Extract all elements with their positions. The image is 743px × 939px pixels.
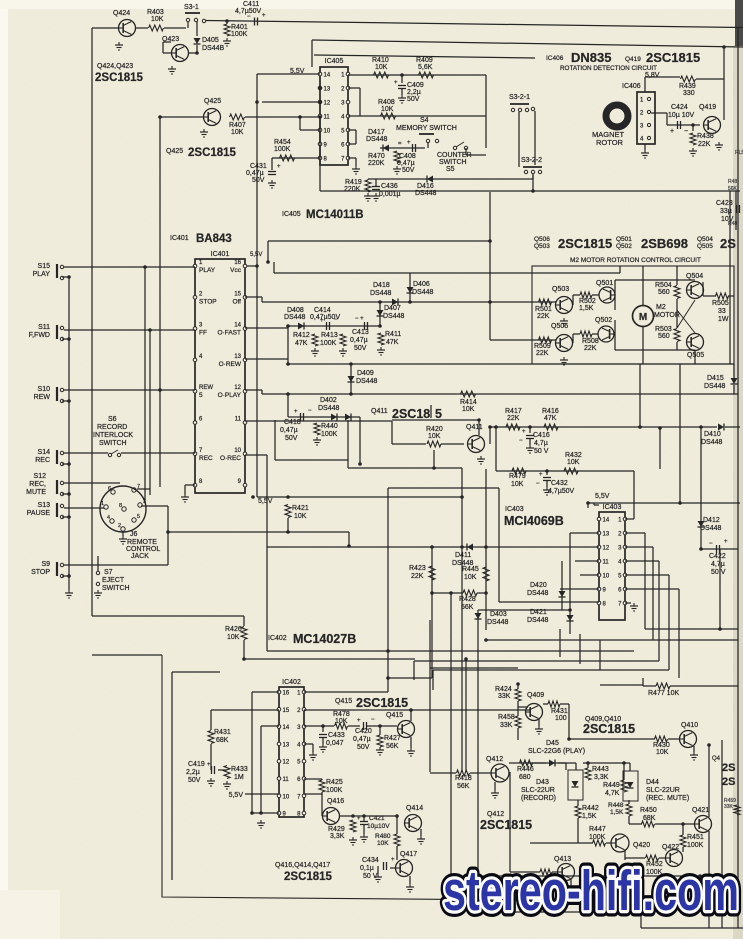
svg-text:56K: 56K (461, 604, 474, 611)
svg-text:0,047: 0,047 (326, 740, 344, 747)
svg-text:R417: R417 (505, 408, 522, 415)
svg-text:R419: R419 (345, 179, 362, 186)
svg-text:S9: S9 (41, 561, 50, 568)
svg-text:1,5K: 1,5K (610, 809, 624, 816)
svg-text:D418: D418 (373, 282, 390, 289)
svg-text:DS448: DS448 (284, 314, 306, 321)
svg-text:IC402: IC402 (268, 635, 287, 642)
svg-text:13: 13 (324, 87, 331, 93)
svg-text:22K: 22K (698, 141, 711, 148)
svg-text:R440: R440 (321, 423, 338, 430)
svg-text:D44: D44 (646, 779, 659, 786)
svg-text:R508: R508 (582, 338, 599, 345)
svg-text:M: M (639, 312, 647, 323)
svg-text:10: 10 (234, 448, 241, 454)
svg-text:33K: 33K (724, 804, 734, 810)
svg-text:R403: R403 (147, 9, 164, 16)
svg-text:DS448: DS448 (704, 383, 726, 390)
svg-text:50V: 50V (402, 167, 415, 174)
svg-text:S5: S5 (446, 166, 455, 173)
svg-text:Q425: Q425 (204, 98, 221, 105)
svg-text:JACK: JACK (131, 553, 149, 560)
svg-text:REC: REC (199, 455, 213, 462)
svg-text:Q419: Q419 (699, 104, 716, 111)
svg-text:0,1µ: 0,1µ (360, 865, 374, 872)
svg-text:R480: R480 (375, 833, 391, 840)
svg-text:R48: R48 (728, 179, 737, 185)
svg-text:Q502: Q502 (595, 317, 612, 324)
svg-text:50V: 50V (354, 345, 367, 352)
svg-text:Q504: Q504 (686, 273, 703, 280)
svg-text:−: − (536, 481, 540, 487)
svg-text:2SC1815: 2SC1815 (583, 722, 635, 736)
svg-text:R429: R429 (328, 826, 345, 833)
svg-text:R412: R412 (293, 332, 310, 339)
svg-text:Vcc: Vcc (230, 267, 242, 274)
svg-text:220K: 220K (344, 186, 361, 193)
svg-text:11: 11 (235, 417, 242, 423)
svg-text:R410: R410 (372, 57, 389, 64)
svg-text:C433: C433 (328, 732, 345, 739)
svg-text:R447: R447 (589, 826, 606, 833)
svg-text:IC406: IC406 (622, 83, 641, 90)
svg-text:− +: − + (355, 316, 364, 322)
svg-text:SWITCH: SWITCH (439, 159, 467, 166)
svg-text:10: 10 (283, 794, 290, 800)
svg-text:11: 11 (603, 560, 610, 566)
svg-text:5,5V: 5,5V (229, 792, 244, 799)
svg-text:−: − (519, 438, 523, 444)
svg-text:C424: C424 (671, 104, 688, 111)
svg-text:S13: S13 (38, 502, 51, 509)
svg-text:DS448: DS448 (370, 290, 392, 297)
svg-text:S10: S10 (38, 386, 51, 393)
svg-text:13: 13 (283, 742, 290, 748)
svg-text:−: − (334, 317, 338, 323)
svg-text:5,5V: 5,5V (595, 493, 610, 500)
svg-text:C414: C414 (314, 307, 331, 314)
svg-text:C436: C436 (381, 183, 398, 190)
svg-text:100K: 100K (326, 787, 343, 794)
svg-text:10K: 10K (294, 513, 307, 520)
svg-text:R432: R432 (565, 452, 582, 459)
svg-text:1,5K: 1,5K (582, 813, 597, 820)
svg-text:DS448: DS448 (487, 619, 509, 626)
svg-text:PLAY: PLAY (199, 267, 216, 274)
svg-text:O·REC: O·REC (220, 455, 241, 462)
svg-text:R431: R431 (551, 708, 568, 715)
svg-text:=: = (398, 141, 402, 147)
svg-text:S3-2-1: S3-2-1 (509, 94, 530, 101)
svg-text:C418: C418 (284, 419, 301, 426)
svg-text:S4: S4 (420, 117, 429, 124)
svg-text:5,5V: 5,5V (258, 498, 273, 505)
svg-text:R431: R431 (214, 729, 231, 736)
svg-text:56K: 56K (457, 783, 470, 790)
svg-text:15: 15 (283, 708, 290, 714)
svg-text:−: − (247, 14, 251, 20)
svg-text:4,7K: 4,7K (605, 790, 620, 797)
svg-text:DS448: DS448 (527, 590, 549, 597)
svg-text:12: 12 (283, 760, 290, 766)
svg-text:Q504: Q504 (697, 236, 713, 243)
svg-text:10K: 10K (227, 634, 240, 641)
svg-text:+: + (277, 164, 281, 170)
svg-text:3: 3 (143, 499, 146, 505)
svg-text:REC: REC (35, 457, 50, 464)
svg-text:10K: 10K (335, 718, 348, 725)
svg-text:RECORD: RECORD (97, 424, 127, 431)
svg-text:100K: 100K (687, 842, 704, 849)
svg-text:16: 16 (283, 691, 290, 697)
svg-text:R451: R451 (687, 834, 704, 841)
svg-text:DS448: DS448 (412, 289, 434, 296)
svg-text:0,47µ: 0,47µ (280, 427, 298, 434)
svg-text:10µ 10V: 10µ 10V (668, 112, 695, 119)
svg-text:Q506: Q506 (534, 236, 550, 243)
svg-text:IC403: IC403 (505, 506, 524, 513)
svg-text:M2 MOTOR ROTATION CONTROL: M2 MOTOR ROTATION CONTROL CIRCUIT (570, 257, 701, 264)
svg-text:R427: R427 (384, 735, 401, 742)
svg-text:+: + (522, 429, 526, 435)
svg-text:SLC-22G6 (PLAY): SLC-22G6 (PLAY) (528, 748, 585, 755)
svg-text:D407: D407 (384, 305, 401, 312)
svg-text:EJECT: EJECT (102, 577, 125, 584)
svg-text:R423: R423 (409, 565, 426, 572)
svg-text:+: + (394, 80, 398, 86)
svg-text:R425: R425 (326, 779, 343, 786)
svg-text:14: 14 (283, 725, 290, 731)
svg-text:CONTROL: CONTROL (126, 546, 160, 553)
svg-text:Q503: Q503 (534, 243, 550, 250)
svg-text:SWITCH: SWITCH (102, 585, 130, 592)
svg-text:50V: 50V (252, 177, 265, 184)
svg-text:D411: D411 (455, 552, 471, 559)
svg-text:12: 12 (234, 385, 241, 391)
svg-text:O·PLAY: O·PLAY (218, 392, 242, 399)
svg-text:R479: R479 (509, 473, 526, 480)
svg-text:DS448: DS448 (700, 525, 722, 532)
svg-text:100: 100 (555, 715, 567, 722)
svg-text:C420: C420 (355, 728, 372, 735)
svg-text:Q412: Q412 (487, 811, 504, 818)
svg-text:Q503: Q503 (552, 286, 569, 293)
svg-text:S3-1: S3-1 (184, 4, 199, 11)
svg-text:0,47µ: 0,47µ (353, 736, 371, 743)
svg-text:(REC. MUTE): (REC. MUTE) (646, 795, 689, 802)
svg-text:22K: 22K (584, 345, 597, 352)
svg-text:D43: D43 (536, 779, 549, 786)
svg-text:+: + (391, 857, 395, 863)
svg-text:INTERLOCK: INTERLOCK (93, 432, 133, 439)
svg-text:IC401: IC401 (170, 235, 189, 242)
svg-text:D421: D421 (530, 609, 547, 616)
svg-text:+: + (262, 13, 266, 19)
svg-text:5: 5 (199, 392, 203, 399)
svg-text:2: 2 (118, 523, 121, 529)
svg-text:R416: R416 (542, 408, 559, 415)
svg-text:R478: R478 (333, 711, 350, 718)
svg-text:R443: R443 (592, 766, 609, 773)
svg-text:R407: R407 (229, 122, 246, 129)
svg-text:R445: R445 (462, 566, 479, 573)
svg-text:MC14011B: MC14011B (306, 209, 364, 221)
svg-text:10µ10V: 10µ10V (367, 823, 390, 830)
svg-text:MCI4069B: MCI4069B (504, 514, 564, 528)
svg-text:IC403: IC403 (603, 504, 622, 511)
svg-text:6: 6 (108, 486, 111, 492)
svg-text:68K: 68K (643, 815, 656, 822)
svg-text:IC402: IC402 (282, 679, 301, 686)
svg-text:50V: 50V (407, 96, 420, 103)
svg-text:10V: 10V (721, 216, 734, 223)
svg-text:+: + (407, 140, 411, 146)
svg-text:R433: R433 (231, 766, 248, 773)
svg-text:22K: 22K (536, 350, 549, 357)
svg-text:5,5V: 5,5V (250, 252, 262, 258)
svg-text:Q420: Q420 (633, 842, 650, 849)
svg-text:D412: D412 (703, 517, 720, 524)
svg-text:R401: R401 (231, 24, 248, 31)
svg-text:10K: 10K (231, 129, 244, 136)
svg-text:10K: 10K (464, 574, 477, 581)
svg-text:33K: 33K (500, 722, 513, 729)
svg-text:R454: R454 (274, 139, 291, 146)
svg-text:Q501: Q501 (616, 236, 632, 243)
svg-text:Q409: Q409 (527, 692, 544, 699)
svg-text:SLC-22UR: SLC-22UR (521, 787, 555, 794)
svg-text:IC401: IC401 (211, 251, 230, 258)
svg-text:R418: R418 (455, 775, 472, 782)
svg-text:50 V: 50 V (711, 569, 726, 576)
svg-text:2S: 2S (722, 762, 735, 774)
svg-text:13: 13 (234, 354, 241, 360)
svg-text:REW: REW (199, 385, 213, 391)
svg-text:2SC1815: 2SC1815 (284, 871, 333, 883)
svg-text:2SC1815: 2SC1815 (188, 147, 237, 159)
svg-text:10K: 10K (656, 749, 669, 756)
svg-text:REC,: REC, (29, 481, 46, 488)
svg-text:S14: S14 (38, 449, 51, 456)
svg-text:D416: D416 (417, 183, 434, 190)
svg-text:MUTE: MUTE (26, 489, 46, 496)
svg-text:R424: R424 (495, 686, 512, 693)
svg-text:1W: 1W (718, 316, 729, 323)
svg-text:DS448: DS448 (356, 378, 378, 385)
svg-text:2S: 2S (722, 776, 735, 788)
svg-text:13: 13 (603, 532, 610, 538)
svg-text:C434: C434 (362, 857, 379, 864)
svg-text:PLAY: PLAY (33, 271, 51, 278)
svg-text:D408: D408 (287, 307, 304, 314)
svg-text:PAUSE: PAUSE (27, 510, 51, 517)
svg-text:Q502: Q502 (616, 243, 632, 250)
svg-text:10K: 10K (151, 16, 164, 23)
svg-text:10K: 10K (462, 406, 475, 413)
svg-text:−: − (709, 541, 713, 547)
svg-text:ROTATION DETECTION CIRCUIT: ROTATION DETECTION CIRCUIT (560, 65, 657, 72)
svg-text:10K: 10K (428, 433, 441, 440)
svg-text:11: 11 (283, 777, 290, 783)
svg-text:4: 4 (107, 515, 110, 521)
svg-text:R430: R430 (653, 742, 670, 749)
svg-text:F,FWD: F,FWD (29, 332, 50, 339)
svg-text:16: 16 (234, 260, 241, 266)
svg-text:R421: R421 (292, 505, 309, 512)
svg-text:REW: REW (34, 394, 51, 401)
svg-text:Q4: Q4 (712, 756, 721, 762)
svg-text:R438: R438 (697, 133, 714, 140)
svg-text:C413: C413 (352, 329, 369, 336)
svg-text:R420: R420 (426, 426, 443, 433)
svg-text:4,7µ: 4,7µ (711, 561, 725, 568)
svg-text:+: + (320, 318, 324, 324)
svg-text:Q501: Q501 (596, 280, 613, 287)
svg-text:R449: R449 (603, 782, 620, 789)
svg-text:C419: C419 (188, 761, 205, 768)
svg-text:R503: R503 (655, 326, 672, 333)
svg-text:1: 1 (101, 501, 104, 507)
svg-text:4,7µ50V: 4,7µ50V (548, 488, 575, 495)
svg-text:S15: S15 (38, 263, 51, 270)
svg-text:Q411: Q411 (466, 424, 483, 431)
svg-text:22K: 22K (411, 573, 424, 580)
svg-text:2SC1815: 2SC1815 (356, 696, 408, 710)
svg-text:Q415: Q415 (335, 698, 352, 705)
svg-text:ROTOR: ROTOR (596, 138, 624, 147)
svg-text:(RECORD): (RECORD) (521, 795, 556, 802)
svg-text:22K: 22K (507, 415, 520, 422)
svg-text:−: − (684, 128, 688, 135)
svg-text:2SC18: 2SC18 (392, 407, 430, 421)
svg-text:Q424: Q424 (113, 10, 130, 17)
svg-text:SLC-22UR: SLC-22UR (646, 787, 680, 794)
svg-text:O·FAST: O·FAST (218, 330, 242, 337)
svg-text:REMOTE: REMOTE (127, 539, 157, 546)
svg-text:DS448: DS448 (527, 617, 549, 624)
svg-text:R428: R428 (459, 596, 476, 603)
svg-text:12: 12 (324, 101, 331, 107)
svg-text:Q412: Q412 (486, 756, 503, 763)
svg-text:50V: 50V (357, 744, 370, 751)
svg-text:DS448: DS448 (318, 405, 340, 412)
svg-text:Q416: Q416 (327, 798, 344, 805)
svg-text:2,2µ: 2,2µ (186, 769, 200, 776)
svg-text:2SC1815: 2SC1815 (646, 50, 700, 65)
svg-text:R439: R439 (679, 83, 696, 90)
svg-text:2SC1815: 2SC1815 (95, 72, 144, 84)
svg-text:33: 33 (718, 308, 726, 315)
svg-text:5,8V: 5,8V (645, 72, 660, 79)
svg-text:IC406: IC406 (546, 55, 564, 62)
svg-text:5,6K: 5,6K (418, 64, 433, 71)
svg-text:S12: S12 (34, 473, 47, 480)
svg-text:R448: R448 (608, 802, 624, 809)
svg-text:S6: S6 (108, 416, 117, 423)
svg-text:14: 14 (324, 73, 331, 79)
svg-text:SWITCH: SWITCH (99, 440, 127, 447)
svg-text:2SC1815: 2SC1815 (558, 236, 612, 251)
svg-text:Q505: Q505 (697, 243, 713, 250)
svg-text:R501: R501 (535, 306, 552, 313)
svg-text:47K: 47K (544, 415, 557, 422)
svg-text:+: + (357, 816, 361, 822)
svg-text:R408: R408 (378, 99, 395, 106)
svg-text:R477 10K: R477 10K (648, 690, 679, 697)
svg-text:0,47µ: 0,47µ (350, 337, 368, 344)
svg-text:Q411: Q411 (371, 408, 388, 415)
svg-text:0,47µ: 0,47µ (246, 170, 264, 177)
svg-text:RL5: RL5 (735, 150, 743, 156)
svg-text:Q416,Q414,Q417: Q416,Q414,Q417 (275, 862, 330, 869)
svg-text:D403: D403 (490, 611, 507, 618)
svg-text:100K: 100K (320, 340, 337, 347)
svg-text:R502: R502 (579, 298, 596, 305)
svg-text:S11: S11 (38, 324, 50, 331)
svg-text:C411: C411 (243, 1, 259, 8)
svg-text:C409: C409 (407, 82, 424, 89)
svg-text:220K: 220K (368, 160, 385, 167)
svg-text:R458: R458 (498, 714, 515, 721)
svg-text:R442: R442 (582, 805, 599, 812)
svg-text:DN835: DN835 (571, 50, 611, 65)
svg-text:Q415: Q415 (386, 712, 403, 719)
svg-text:0,001µ: 0,001µ (379, 191, 401, 198)
svg-text:8: 8 (119, 503, 122, 509)
svg-text:R450: R450 (640, 807, 657, 814)
svg-text:100K: 100K (231, 31, 248, 38)
svg-text:R409: R409 (416, 57, 433, 64)
svg-text:50 V: 50 V (534, 448, 549, 455)
svg-text:R504: R504 (655, 282, 672, 289)
svg-text:DS448: DS448 (366, 136, 388, 143)
svg-text:D417: D417 (368, 129, 385, 136)
svg-text:R414: R414 (460, 399, 477, 406)
svg-text:Q421: Q421 (692, 807, 709, 814)
svg-text:DS44B: DS44B (202, 45, 225, 52)
svg-text:+: + (670, 128, 674, 135)
svg-text:Q410: Q410 (681, 722, 698, 729)
svg-text:680: 680 (519, 774, 531, 781)
svg-text:15: 15 (234, 291, 241, 297)
svg-text:5: 5 (137, 514, 140, 520)
svg-text:IC405: IC405 (325, 58, 344, 65)
svg-text:S7: S7 (104, 569, 113, 576)
svg-text:C432: C432 (551, 480, 568, 487)
svg-text:Q417: Q417 (400, 851, 417, 858)
svg-text:Q425: Q425 (166, 148, 183, 155)
svg-text:2S: 2S (720, 236, 736, 251)
svg-text:0,47µ: 0,47µ (397, 160, 415, 167)
svg-text:22K: 22K (537, 313, 550, 320)
svg-text:10: 10 (324, 129, 331, 135)
svg-text:+: + (724, 539, 728, 545)
svg-text:J6: J6 (130, 531, 138, 538)
svg-text:C431: C431 (250, 163, 267, 170)
svg-text:560: 560 (658, 333, 670, 340)
svg-text:2SB698: 2SB698 (641, 236, 688, 251)
svg-text:330: 330 (683, 90, 695, 97)
svg-text:D402: D402 (320, 397, 337, 404)
svg-text:50V: 50V (188, 777, 201, 784)
svg-text:68K: 68K (216, 737, 229, 744)
svg-text:2SC1815: 2SC1815 (480, 818, 532, 832)
svg-text:MOTOR: MOTOR (654, 312, 680, 319)
svg-text:10K: 10K (511, 481, 524, 488)
svg-text:S3-2-2: S3-2-2 (521, 157, 542, 164)
svg-text:R411: R411 (385, 331, 401, 338)
svg-text:+: + (357, 718, 361, 724)
